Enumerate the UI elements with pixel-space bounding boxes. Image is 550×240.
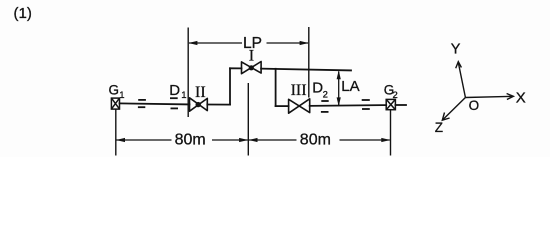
svg-text:1: 1 [181, 90, 186, 101]
wire: upper pipe left of valve I [230, 67, 242, 69]
axes: Z axis [442, 98, 465, 121]
svg-text:Z: Z [435, 120, 443, 135]
svg-text:1: 1 [119, 90, 124, 101]
svg-text:2: 2 [323, 90, 328, 101]
wire: pipe valve II to left riser [207, 104, 230, 106]
svg-text:80m: 80m [175, 131, 206, 148]
node =-mark 1 [138, 100, 146, 107]
svg-text:III: III [291, 82, 307, 99]
valve G2 (crossed square) [386, 99, 395, 109]
dimension 80m right line + arrows [249, 139, 390, 141]
node =-mark 2 (at D1) [170, 98, 178, 108]
wire: upper pipe right of valve I to end [261, 69, 351, 71]
node =-mark 4 [362, 100, 370, 109]
svg-text:D: D [312, 79, 323, 96]
wire: left main pipe G1 to valve II [120, 103, 190, 104]
svg-text:80m: 80m [300, 131, 331, 148]
svg-text:2: 2 [393, 90, 398, 101]
svg-text:LA: LA [341, 78, 359, 95]
wire: left riser up [229, 68, 231, 104]
wire: pipe right of G2 [395, 104, 406, 106]
valve III [289, 99, 310, 113]
dimension LP line + arrows [189, 42, 308, 44]
axes: Y axis [456, 62, 466, 98]
svg-text:(1): (1) [14, 5, 32, 22]
svg-text:II: II [195, 84, 206, 101]
svg-text:X: X [516, 90, 526, 107]
dimension 80m extension line left (below G1) [115, 109, 117, 155]
svg-text:G: G [109, 83, 120, 98]
svg-text:D: D [169, 82, 180, 99]
svg-text:Y: Y [451, 41, 461, 57]
valve G1 (crossed square) [111, 98, 119, 109]
node =-mark 3 (at D2) [321, 101, 329, 112]
svg-text:LP: LP [243, 35, 262, 52]
dimension LP extension line right [308, 27, 310, 98]
axes: X axis [465, 94, 513, 100]
dimension 80m extension line middle [247, 83, 249, 156]
dimension 80m left line + arrows [117, 139, 248, 141]
wire: stub riser to valve III [276, 105, 289, 107]
dimension 80m extension line right (below G2) [390, 110, 392, 156]
valve I [242, 62, 262, 74]
wire: right riser down [275, 69, 277, 106]
valve II [190, 98, 208, 111]
dimension LP extension line left [187, 28, 189, 118]
dimension LA arrow [338, 72, 340, 106]
svg-text:O: O [469, 98, 480, 113]
wire: right main pipe valve III to G2 [310, 104, 387, 107]
